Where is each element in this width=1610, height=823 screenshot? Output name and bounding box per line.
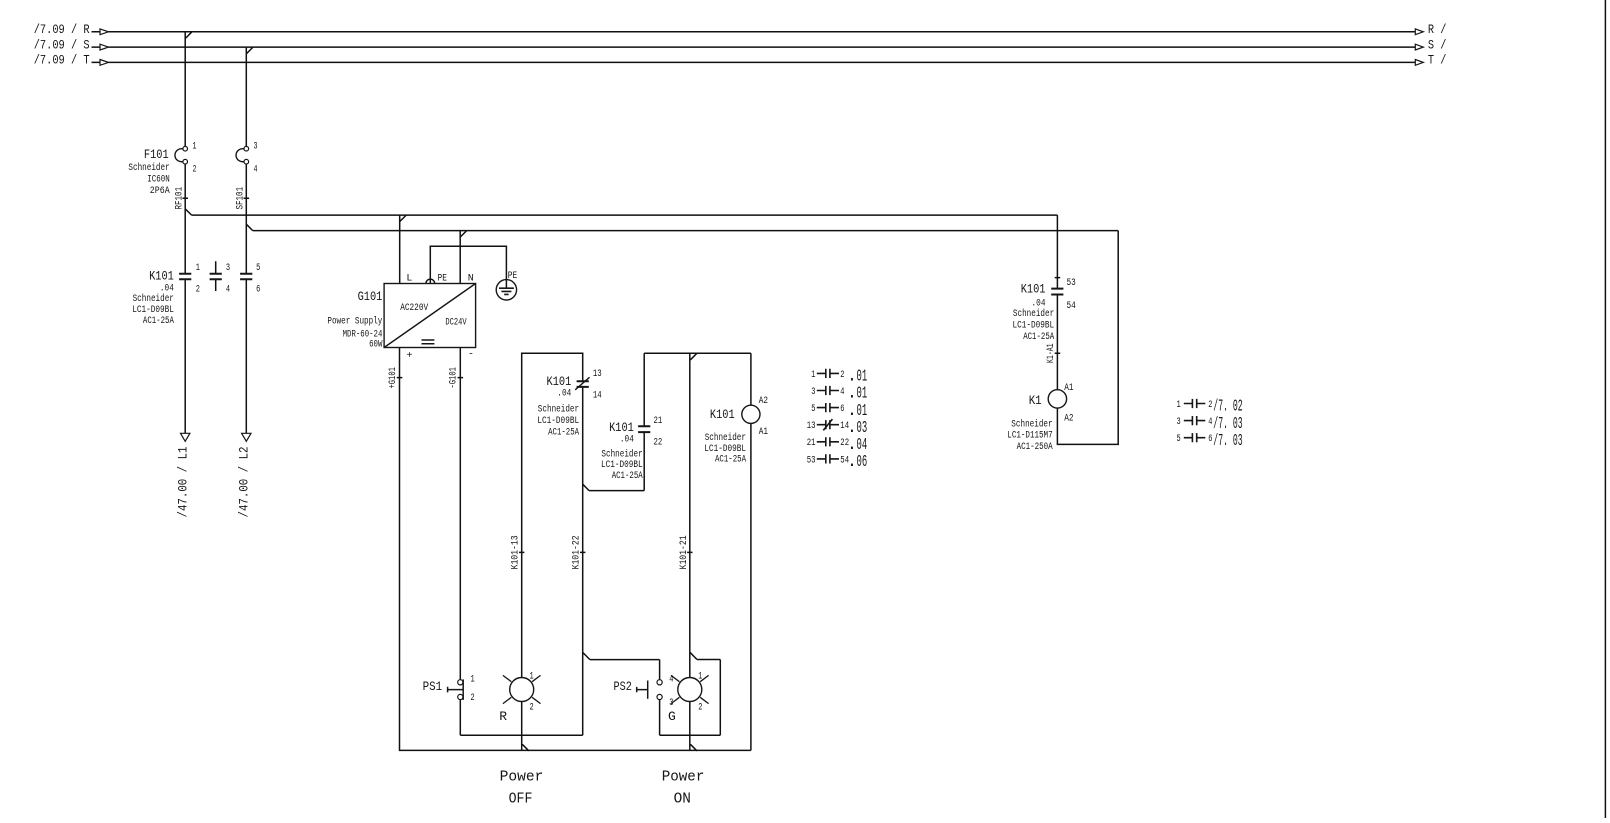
- svg-text:K101: K101: [609, 420, 634, 435]
- svg-text:S /: S /: [1428, 37, 1447, 52]
- svg-text:+G101: +G101: [388, 367, 399, 388]
- svg-text:1: 1: [530, 672, 534, 683]
- svg-text:2P6A: 2P6A: [150, 186, 170, 197]
- svg-text:K1-A1: K1-A1: [1046, 343, 1057, 363]
- svg-text:4: 4: [669, 674, 673, 685]
- svg-text:1: 1: [471, 675, 475, 686]
- svg-text:.04: .04: [1032, 298, 1046, 309]
- svg-text:13: 13: [807, 421, 816, 432]
- svg-text:6: 6: [840, 404, 844, 415]
- svg-text:22: 22: [654, 438, 663, 449]
- svg-text:PE: PE: [508, 271, 518, 282]
- svg-text:/7.09 / R: /7.09 / R: [34, 22, 90, 37]
- svg-text:5: 5: [1177, 434, 1181, 445]
- svg-text:14: 14: [593, 390, 602, 401]
- svg-text:A1: A1: [759, 427, 768, 438]
- svg-text:Power Supply: Power Supply: [327, 315, 382, 327]
- svg-text:60W: 60W: [369, 340, 382, 351]
- svg-text:Schneider: Schneider: [601, 448, 642, 460]
- svg-text:Schneider: Schneider: [128, 162, 169, 174]
- svg-text:PE: PE: [438, 273, 448, 284]
- svg-text:.04: .04: [160, 283, 174, 294]
- svg-text:K101-21: K101-21: [679, 535, 690, 569]
- svg-text:21: 21: [807, 438, 816, 449]
- svg-text:5: 5: [811, 404, 815, 415]
- svg-text:13: 13: [593, 369, 602, 380]
- svg-text:LC1-D09BL: LC1-D09BL: [1013, 320, 1055, 331]
- svg-text:+: +: [407, 351, 413, 362]
- svg-text:LC1-D09BL: LC1-D09BL: [132, 305, 174, 316]
- svg-text:AC1-25A: AC1-25A: [715, 455, 746, 466]
- svg-text:1: 1: [811, 370, 815, 381]
- svg-text:Schneider: Schneider: [1013, 308, 1054, 320]
- svg-text:53: 53: [807, 455, 816, 466]
- svg-text:5: 5: [256, 263, 260, 274]
- svg-text:PS2: PS2: [614, 679, 632, 694]
- svg-text:T /: T /: [1428, 53, 1447, 68]
- svg-text:L: L: [406, 273, 412, 284]
- svg-text:AC1-25A: AC1-25A: [1023, 332, 1054, 343]
- svg-text:2: 2: [840, 370, 844, 381]
- svg-text:4: 4: [840, 387, 844, 398]
- svg-text:2: 2: [471, 693, 475, 704]
- svg-text:AC1-250A: AC1-250A: [1017, 442, 1053, 453]
- svg-text:K1: K1: [1029, 393, 1042, 408]
- svg-text:LC1-D09BL: LC1-D09BL: [704, 444, 746, 455]
- svg-text:K101: K101: [710, 407, 735, 422]
- svg-text:IC60N: IC60N: [147, 174, 169, 185]
- svg-text:R /: R /: [1428, 22, 1447, 37]
- svg-text:6: 6: [1208, 434, 1212, 445]
- svg-text:06: 06: [857, 452, 868, 471]
- svg-text:ON: ON: [674, 791, 691, 808]
- svg-text:LC1-D09BL: LC1-D09BL: [537, 416, 579, 427]
- svg-text:4: 4: [1208, 417, 1212, 428]
- svg-text:/47.00 / L1: /47.00 / L1: [175, 446, 190, 517]
- svg-text:Schneider: Schneider: [705, 432, 746, 444]
- svg-text:54: 54: [1067, 301, 1076, 312]
- svg-text:K101: K101: [547, 374, 572, 389]
- svg-text:Schneider: Schneider: [538, 403, 579, 415]
- svg-text:A1: A1: [1064, 383, 1073, 394]
- svg-text:2: 2: [193, 164, 197, 175]
- svg-text:.04: .04: [557, 389, 571, 400]
- svg-text:A2: A2: [759, 396, 768, 407]
- svg-text:21: 21: [654, 416, 663, 427]
- svg-text:AC1-25A: AC1-25A: [612, 471, 643, 482]
- svg-text:2: 2: [530, 703, 534, 714]
- svg-text:RF101: RF101: [175, 187, 186, 210]
- svg-text:2: 2: [196, 284, 200, 295]
- svg-text:SF101: SF101: [236, 187, 247, 210]
- svg-text:/7.09 / T: /7.09 / T: [34, 53, 90, 68]
- svg-text:AC1-25A: AC1-25A: [548, 428, 579, 439]
- svg-text:R: R: [499, 709, 507, 724]
- svg-text:AC220V: AC220V: [400, 303, 428, 314]
- svg-text:3: 3: [254, 142, 258, 153]
- svg-text:/7.09 / S: /7.09 / S: [34, 37, 90, 52]
- svg-text:F101: F101: [144, 147, 169, 162]
- svg-text:3: 3: [811, 387, 815, 398]
- svg-text:K101-13: K101-13: [511, 535, 522, 569]
- svg-text:.: .: [847, 452, 857, 471]
- svg-text:2: 2: [698, 703, 702, 714]
- svg-text:1: 1: [698, 672, 702, 683]
- svg-text:G101: G101: [358, 289, 383, 304]
- svg-text:K101: K101: [1021, 281, 1046, 296]
- svg-text:6: 6: [256, 284, 260, 295]
- svg-text:Schneider: Schneider: [133, 293, 174, 305]
- svg-text:Power: Power: [500, 769, 544, 786]
- svg-text:2: 2: [1208, 400, 1212, 411]
- svg-text:53: 53: [1067, 278, 1076, 289]
- svg-text:K101: K101: [149, 268, 174, 283]
- svg-text:AC1-25A: AC1-25A: [143, 316, 174, 327]
- svg-text:PS1: PS1: [423, 679, 443, 694]
- svg-text:3: 3: [1177, 417, 1181, 428]
- svg-text:-: -: [468, 350, 474, 361]
- svg-text:-G101: -G101: [449, 367, 460, 388]
- svg-text:.04: .04: [620, 435, 634, 446]
- svg-text:K101-22: K101-22: [572, 535, 583, 569]
- svg-text:Power: Power: [662, 769, 705, 786]
- svg-text:OFF: OFF: [509, 791, 533, 808]
- svg-text:3: 3: [669, 698, 673, 709]
- svg-text:Schneider: Schneider: [1011, 419, 1052, 431]
- svg-text:1: 1: [193, 142, 197, 153]
- svg-text:DC24V: DC24V: [445, 318, 466, 329]
- svg-text:4: 4: [254, 164, 258, 175]
- svg-text:1: 1: [196, 263, 200, 274]
- svg-text:1: 1: [1177, 400, 1181, 411]
- svg-text:A2: A2: [1064, 414, 1073, 425]
- svg-text:LC1-D115M7: LC1-D115M7: [1007, 431, 1052, 442]
- svg-text:/47.00 / L2: /47.00 / L2: [236, 447, 251, 518]
- svg-text:3: 3: [226, 263, 230, 274]
- svg-text:LC1-D09BL: LC1-D09BL: [601, 460, 643, 471]
- svg-text:4: 4: [226, 284, 230, 295]
- svg-text:/7. 03: /7. 03: [1213, 431, 1242, 450]
- svg-text:N: N: [468, 273, 474, 284]
- svg-text:G: G: [668, 709, 676, 724]
